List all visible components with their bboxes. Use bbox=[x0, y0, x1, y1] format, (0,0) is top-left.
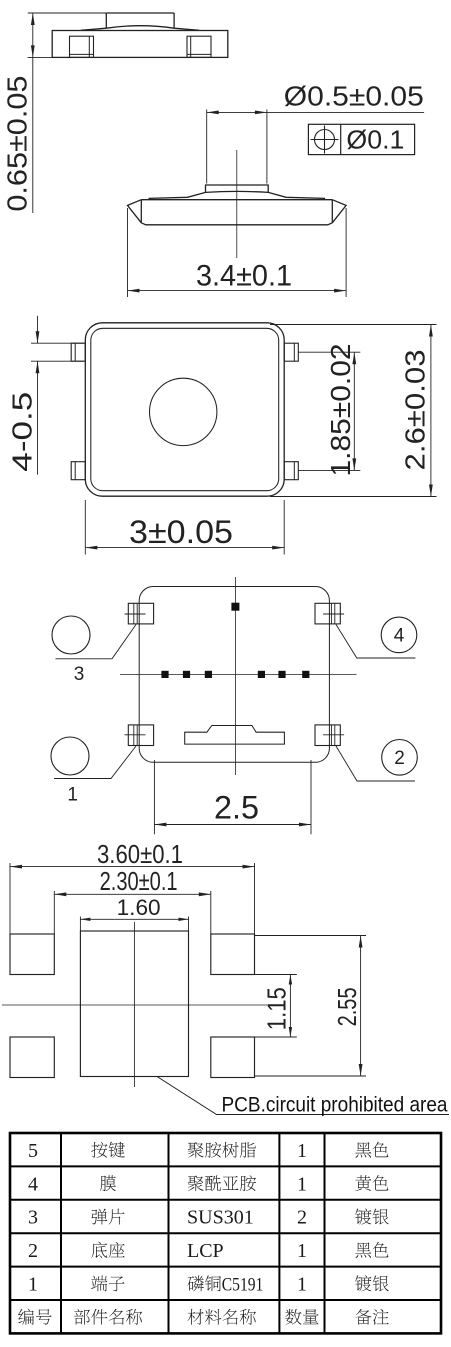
svg-text:3±0.05: 3±0.05 bbox=[129, 514, 233, 550]
view3 center circle bbox=[150, 378, 217, 445]
view4 horizontal centerline bbox=[120, 673, 357, 675]
svg-text:Ø0.5±0.05: Ø0.5±0.05 bbox=[284, 80, 424, 111]
pad bottom-left bbox=[10, 1037, 54, 1078]
pin label circle 1 bbox=[51, 737, 89, 775]
dimension 1.85 extension lines bbox=[298, 351, 360, 353]
position tolerance symbol bbox=[315, 130, 335, 150]
view4 contact marks row bbox=[161, 671, 168, 678]
prohibited area rectangle bbox=[80, 931, 188, 1077]
svg-text:1: 1 bbox=[67, 785, 78, 806]
view2 dome top bbox=[149, 191, 326, 198]
dimension 3.4 line with arrows bbox=[128, 290, 347, 292]
view2 left flange bbox=[128, 200, 142, 223]
svg-text:5: 5 bbox=[28, 1140, 38, 1162]
svg-text:2.6±0.03: 2.6±0.03 bbox=[400, 350, 431, 471]
svg-text:2.5: 2.5 bbox=[214, 790, 259, 826]
view3 outer rounded square bbox=[85, 323, 284, 496]
view4 terminal bottom-left bbox=[128, 725, 153, 746]
svg-text:C5191: C5191 bbox=[222, 1275, 263, 1296]
dimension 4-0.5 extension lines bbox=[31, 342, 84, 344]
dimension 3 extension lines bbox=[84, 500, 86, 555]
pin label circle 2 bbox=[382, 740, 418, 776]
view2 body sides bbox=[140, 200, 142, 223]
dimension 3.60 line with arrows bbox=[10, 866, 255, 868]
view4 terminal top-left bbox=[128, 603, 153, 624]
svg-text:1: 1 bbox=[297, 1140, 307, 1162]
view4 bottom bracket bbox=[185, 726, 285, 745]
view4 top index mark bbox=[231, 603, 239, 611]
svg-text:2: 2 bbox=[297, 1207, 307, 1229]
dimension Ø0.5 line with arrows bbox=[207, 111, 424, 113]
dimension 2.55 line with arrows bbox=[360, 936, 362, 1077]
view1 push button cap bbox=[106, 13, 174, 28]
dimension 2.30 extension lines bbox=[53, 891, 55, 934]
svg-text:PCB.circuit prohibited area: PCB.circuit prohibited area bbox=[222, 1094, 448, 1117]
dimension 3.4 extension lines bbox=[127, 208, 129, 297]
svg-text:1: 1 bbox=[297, 1274, 307, 1296]
pin 4 leader line bbox=[336, 625, 415, 659]
svg-text:2.30±0.1: 2.30±0.1 bbox=[100, 866, 178, 896]
svg-text:1.60: 1.60 bbox=[117, 895, 161, 920]
svg-text:4: 4 bbox=[28, 1173, 38, 1195]
svg-text:1.15: 1.15 bbox=[262, 987, 292, 1030]
svg-text:3.4±0.1: 3.4±0.1 bbox=[196, 260, 292, 293]
pin label circle 4 bbox=[381, 617, 417, 653]
dimension 2.5 extension lines bbox=[153, 760, 155, 834]
dimension 2.30 line with arrows bbox=[54, 893, 211, 895]
pin 2 leader line bbox=[336, 746, 415, 781]
dimension Ø0.5 extension lines bbox=[206, 110, 208, 184]
view1 left terminal bbox=[70, 36, 94, 57]
pad top-right bbox=[211, 934, 255, 975]
view1 dome membrane bbox=[81, 26, 199, 31]
svg-text:3: 3 bbox=[28, 1207, 38, 1229]
table header row bbox=[18, 1309, 51, 1325]
svg-text:2: 2 bbox=[394, 748, 405, 769]
svg-text:3.60±0.1: 3.60±0.1 bbox=[97, 839, 183, 869]
view2 centerline bbox=[236, 150, 238, 258]
svg-text:3: 3 bbox=[74, 664, 85, 685]
svg-text:1: 1 bbox=[297, 1173, 307, 1195]
dimension 2.6 extension lines bbox=[270, 324, 437, 326]
prohibited area leader line bbox=[157, 1077, 449, 1115]
land pattern horizontal centerline bbox=[2, 1004, 267, 1006]
dimension 1.85 line with arrows bbox=[353, 352, 355, 470]
dimension 2.55 extension lines bbox=[255, 935, 367, 937]
svg-text:2: 2 bbox=[28, 1240, 38, 1262]
svg-text:1: 1 bbox=[28, 1274, 38, 1296]
view4 vertical centerline bbox=[234, 577, 236, 775]
dimension 2.5 line with arrows bbox=[154, 824, 311, 826]
dimension 1.15 extension lines bbox=[255, 974, 297, 976]
dimension 4-0.5 line with arrows bbox=[37, 316, 39, 343]
view2 body bottom line with chamfers bbox=[141, 223, 332, 225]
pad bottom-right bbox=[211, 1037, 255, 1078]
dimension 1.60 extension lines bbox=[79, 917, 81, 932]
view4 terminal bottom-right bbox=[315, 725, 340, 746]
view3 tab bottom-left bbox=[71, 462, 85, 480]
svg-text:4: 4 bbox=[394, 625, 405, 646]
view4 terminal top-right bbox=[315, 603, 340, 624]
svg-text:1: 1 bbox=[297, 1240, 307, 1262]
pin label circle 3 bbox=[52, 616, 90, 654]
view1 side elevation body outline bbox=[52, 31, 228, 58]
view2 body top line bbox=[141, 199, 332, 201]
feature control frame box bbox=[308, 124, 414, 154]
view2 stem push button bbox=[206, 185, 269, 192]
view3 inner rounded square bbox=[91, 328, 279, 490]
view3 tab top-left bbox=[71, 343, 85, 361]
view4 body outline bbox=[139, 587, 329, 763]
dimension 0.65±0.05 line and arrows bbox=[32, 13, 34, 213]
dimension 1.15 line with arrows bbox=[289, 975, 291, 1038]
dimension 0.65±0.05 extension lines bbox=[28, 12, 107, 14]
svg-text:2.55: 2.55 bbox=[332, 987, 362, 1026]
svg-text:0.65±0.05: 0.65±0.05 bbox=[2, 76, 33, 212]
pad top-left bbox=[10, 934, 54, 975]
svg-text:1.85±0.02: 1.85±0.02 bbox=[325, 344, 356, 477]
pin 1 leader line bbox=[54, 746, 136, 779]
view1 right terminal bbox=[187, 36, 211, 57]
view3 tab top-right bbox=[284, 343, 298, 361]
svg-text:4-0.5: 4-0.5 bbox=[7, 392, 38, 472]
dimension 3 line with arrows bbox=[85, 547, 284, 549]
svg-text:SUS301: SUS301 bbox=[187, 1207, 254, 1229]
svg-text:LCP: LCP bbox=[187, 1240, 224, 1262]
dimension 3.60 extension lines bbox=[9, 863, 11, 934]
parts table grid bbox=[10, 1133, 441, 1333]
view2 right flange bbox=[332, 200, 346, 223]
dimension 2.6 line with arrows bbox=[430, 325, 432, 497]
pin 3 leader line bbox=[56, 625, 137, 659]
dimension 1.60 line with arrows bbox=[80, 918, 188, 920]
view3 tab bottom-right bbox=[284, 462, 298, 480]
land pattern vertical centerline bbox=[133, 922, 135, 1087]
svg-text:Ø0.1: Ø0.1 bbox=[346, 125, 404, 155]
